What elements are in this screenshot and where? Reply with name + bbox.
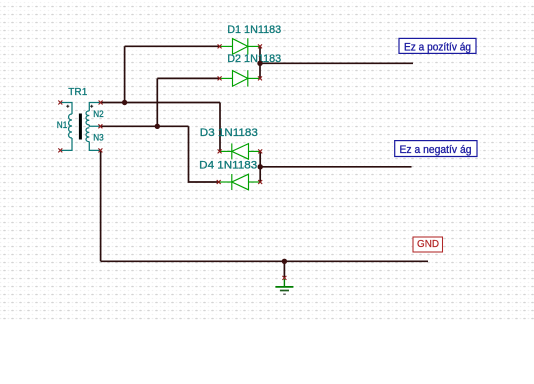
diode D2 xyxy=(220,70,260,86)
wire to D2 anode xyxy=(157,77,219,79)
wire center tap to corner xyxy=(100,125,189,127)
junction node on center tap wire xyxy=(155,124,160,129)
pin marker D1 anode xyxy=(218,44,222,48)
wire top to D1 anode xyxy=(125,45,220,47)
pin marker D1 cathode xyxy=(258,44,262,48)
polarity dot left xyxy=(66,105,69,108)
wire N3 pin drop xyxy=(100,150,102,261)
wire ground rail xyxy=(101,260,428,262)
wire ground stub xyxy=(283,261,285,277)
pin marker D2 cathode xyxy=(258,76,262,80)
svg-text:N1: N1 xyxy=(57,120,68,130)
svg-text:N2: N2 xyxy=(93,109,104,119)
svg-text:GND: GND xyxy=(417,239,439,250)
net label positive output xyxy=(399,38,476,53)
diode D4 xyxy=(219,174,261,190)
junction node on N2 wire xyxy=(122,100,127,105)
pin marker TR1 left bottom xyxy=(58,148,62,152)
svg-text:D1 1N1183: D1 1N1183 xyxy=(227,24,281,36)
diode D3 xyxy=(220,143,261,159)
transformer TR1 xyxy=(60,103,100,151)
wire drop to D4 cathode xyxy=(189,126,219,182)
pin marker TR1 left top xyxy=(58,101,62,105)
pin marker ground xyxy=(282,276,286,280)
wire corner down to D3 cathode xyxy=(219,103,221,152)
pin marker D3 cathode xyxy=(218,149,222,153)
junction node positive output xyxy=(257,61,262,66)
pin marker TR1 center tap xyxy=(98,124,102,128)
power port GND xyxy=(413,237,443,252)
svg-text:D2 1N1183: D2 1N1183 xyxy=(227,53,281,65)
svg-text:Ez a pozítív ág: Ez a pozítív ág xyxy=(404,42,471,54)
wire positive output xyxy=(260,62,413,64)
polarity dot right xyxy=(90,105,93,108)
svg-text:N3: N3 xyxy=(93,133,104,143)
pin marker TR1 right top xyxy=(99,101,103,105)
wire riser to D1 xyxy=(124,46,126,102)
pin marker D2 anode xyxy=(218,76,222,80)
pin marker D4 anode xyxy=(258,180,262,184)
svg-text:D4 1N1183: D4 1N1183 xyxy=(199,160,257,172)
pin marker D3 anode xyxy=(258,149,262,153)
junction node ground rail xyxy=(282,259,287,264)
wire tie D3-D4 anodes xyxy=(259,151,261,182)
junction node negative output xyxy=(258,164,263,169)
diode D1 xyxy=(220,38,260,54)
transformer core xyxy=(79,114,82,140)
svg-text:TR1: TR1 xyxy=(68,87,87,98)
svg-text:Ez a negatív ág: Ez a negatív ág xyxy=(400,144,472,156)
svg-text:D3 1N1183: D3 1N1183 xyxy=(200,127,258,139)
wire tie D1-D2 cathodes xyxy=(259,46,261,78)
ground symbol xyxy=(275,279,293,294)
pin marker D4 cathode xyxy=(217,180,221,184)
pin marker TR1 right bottom xyxy=(98,148,102,152)
wire N2 top pin to corner xyxy=(100,102,220,104)
net label negative output xyxy=(395,141,477,157)
wire negative output xyxy=(260,166,411,168)
wire riser to D2 xyxy=(156,78,158,126)
